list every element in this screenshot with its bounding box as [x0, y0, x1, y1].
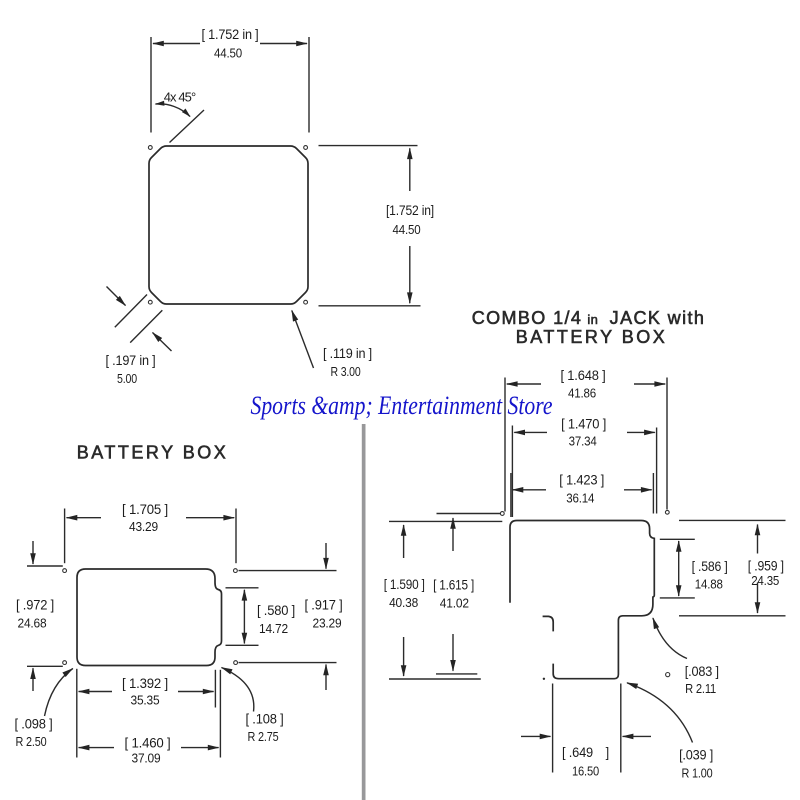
extension line top-right	[308, 37, 310, 133]
divider bar	[362, 424, 366, 800]
arrow up (.959)	[757, 525, 759, 554]
dim arrow up (1.752 right)	[409, 148, 411, 191]
svg-text:5.00: 5.00	[117, 371, 137, 386]
dim arrow right (1.648)	[634, 383, 665, 385]
reference point R2.11	[666, 673, 670, 677]
ext line 1.460 right	[219, 670, 221, 758]
ext 1.470 left	[511, 426, 513, 518]
dim arrow left (1.648)	[507, 383, 541, 385]
svg-text:[ 1.590 ]: [ 1.590 ]	[384, 577, 425, 592]
corner point box top-right	[234, 569, 238, 573]
ext .586 bottom	[660, 597, 695, 599]
corner point combo top-right	[665, 510, 669, 514]
chamfer ext line B	[130, 310, 162, 342]
svg-text:35.35: 35.35	[131, 693, 160, 708]
ext line .580 bottom	[226, 644, 259, 646]
svg-text:37.09: 37.09	[132, 751, 161, 766]
fig1 dimension labels	[106, 27, 435, 386]
ext .959 top	[679, 519, 786, 521]
dim arrow down (1.752 right)	[409, 246, 411, 303]
svg-text:4x 45°: 4x 45°	[164, 90, 196, 105]
svg-text:BATTERY BOX: BATTERY BOX	[77, 443, 229, 463]
stray dot	[543, 678, 545, 680]
extension line right-bottom	[319, 305, 421, 307]
corner point bottom-left	[148, 300, 152, 304]
svg-text:[ .917 ]: [ .917 ]	[305, 598, 343, 613]
svg-text:[ .580 ]: [ .580 ]	[257, 603, 295, 618]
left horiz ext lower	[389, 520, 502, 522]
svg-text:BATTERY BOX: BATTERY BOX	[516, 327, 668, 347]
arrow down (.959)	[757, 583, 759, 614]
dim arrow right (1.460)	[181, 747, 219, 749]
extension line right-top	[319, 145, 418, 147]
ext line left-top	[27, 565, 63, 567]
svg-text:14.88: 14.88	[695, 576, 723, 591]
ext line 1.392 right	[214, 670, 216, 708]
svg-text:43.29: 43.29	[129, 519, 158, 534]
ext line right-bottom	[239, 662, 337, 664]
bottom horiz ext upper	[436, 673, 477, 675]
chamfer arrow 2	[153, 333, 172, 352]
dim arrow left (1.705)	[67, 517, 102, 519]
battery box outline	[77, 569, 222, 666]
ext line .580 top	[226, 587, 259, 589]
arrow down (.972)	[32, 541, 34, 564]
extension line top-left	[150, 37, 152, 133]
svg-text:R 2.75: R 2.75	[248, 729, 279, 744]
corner point box bottom-right	[234, 661, 238, 665]
svg-text:[ .098 ]: [ .098 ]	[15, 717, 53, 732]
svg-text:[ 1.470 ]: [ 1.470 ]	[561, 417, 606, 432]
svg-text:[ .959 ]: [ .959 ]	[748, 559, 784, 574]
fig2 corner circles	[63, 569, 238, 665]
arrow down (1.590)	[403, 637, 405, 676]
svg-text:[.039 ]: [.039 ]	[679, 747, 713, 762]
corner point box top-left	[63, 569, 67, 573]
corner point top-right	[304, 146, 308, 150]
ext .649 left	[552, 684, 554, 773]
dim arrow left (1.752 top)	[153, 43, 200, 45]
svg-text:[ 1.705 ]: [ 1.705 ]	[122, 502, 168, 517]
ext 1.423 right	[652, 473, 654, 514]
svg-text:14.72: 14.72	[259, 621, 288, 636]
corner point box bottom-left	[63, 661, 67, 665]
svg-text:41.86: 41.86	[568, 385, 596, 400]
ext .959 bottom	[679, 615, 786, 617]
bottom horiz ext lower	[389, 678, 481, 680]
svg-text:[ .197 in ]: [ .197 in ]	[106, 353, 156, 368]
leader R2.75	[222, 668, 254, 712]
svg-text:23.29: 23.29	[313, 616, 342, 631]
combo corner stub	[543, 616, 554, 631]
ext 1.470 right	[656, 428, 658, 514]
leader R2.50	[45, 669, 73, 717]
svg-text:[ 1.615 ]: [ 1.615 ]	[433, 577, 474, 592]
svg-text:[ 1.648 ]: [ 1.648 ]	[561, 368, 606, 383]
ext line 1.705 right	[235, 509, 237, 564]
square outline with 4x45 chamfers	[149, 146, 308, 304]
chamfer ext line A	[115, 295, 147, 328]
corner point bottom-right	[304, 300, 308, 304]
arrow right-pointing (.649)	[521, 735, 551, 737]
dim double arrow (.586)	[678, 541, 680, 596]
svg-text:41.02: 41.02	[440, 595, 469, 610]
svg-text:40.38: 40.38	[389, 595, 418, 610]
arrow down (1.615)	[452, 634, 454, 671]
combo outline main	[510, 521, 654, 679]
svg-text:44.50: 44.50	[393, 222, 421, 237]
ext line 1.705 left	[64, 509, 66, 564]
ext 1.423 left	[510, 473, 512, 517]
ext line left-bottom	[27, 665, 63, 667]
leader R2.11	[653, 618, 687, 659]
dim arrow left (1.460)	[79, 747, 114, 749]
ext line 1.392/1.460 left	[76, 669, 78, 758]
svg-text:44.50: 44.50	[214, 46, 242, 61]
corner point combo top-left	[500, 512, 504, 516]
svg-text:[ .119 in ]: [ .119 in ]	[323, 346, 372, 361]
arrow up (1.590)	[403, 525, 405, 558]
ext line right-top	[239, 570, 337, 572]
dim double arrow (.580)	[243, 590, 245, 644]
dim arrow left (1.392)	[79, 691, 112, 693]
dim arrow left (1.470)	[514, 431, 547, 433]
dim arrow right (1.705)	[186, 517, 234, 519]
45 deg indicator line	[170, 110, 205, 143]
svg-text:[ .649 ]: [ .649 ]	[562, 745, 609, 760]
svg-text:R 2.50: R 2.50	[16, 734, 47, 749]
ext .649 right	[620, 684, 622, 773]
fig3 circles	[500, 510, 669, 676]
corner reference circles	[148, 146, 307, 305]
left horiz ext upper	[437, 513, 501, 515]
svg-text:[ 1.423 ]: [ 1.423 ]	[559, 473, 604, 488]
ext 1.648 left	[504, 378, 506, 512]
svg-text:[ .108 ]: [ .108 ]	[246, 712, 284, 727]
svg-text:R 2.11: R 2.11	[685, 681, 716, 696]
dim arrow right (1.423)	[624, 489, 652, 491]
dim arrow left (1.423)	[513, 489, 547, 491]
arrow up (.972)	[32, 668, 34, 691]
dim arrow right (1.752 top)	[260, 43, 307, 45]
dim arrow right (1.392)	[178, 691, 214, 693]
corner point top-left	[148, 146, 152, 150]
svg-text:[ 1.392 ]: [ 1.392 ]	[122, 676, 168, 691]
ext 1.648 right	[666, 378, 668, 510]
fig3 labels	[384, 368, 784, 780]
leader R1.00	[627, 683, 693, 743]
svg-text:36.14: 36.14	[566, 490, 594, 505]
svg-text:24.68: 24.68	[18, 616, 47, 631]
svg-text:COMBO 1/4 in JACK with: COMBO 1/4 in JACK with	[472, 308, 706, 328]
arrow up (1.615)	[452, 518, 454, 551]
leader R3.00	[292, 311, 314, 369]
arrow left-pointing (.649)	[623, 735, 651, 737]
angle arc	[156, 104, 191, 117]
arrow down (.917)	[325, 543, 327, 569]
svg-text:[1.752 in]: [1.752 in]	[386, 203, 434, 218]
svg-text:37.34: 37.34	[569, 433, 597, 448]
ext .586 top	[660, 538, 695, 540]
svg-text:[ 1.752 in ]: [ 1.752 in ]	[202, 27, 259, 42]
svg-text:R 3.00: R 3.00	[331, 364, 361, 379]
svg-text:Sports &amp; Entertainment Sto: Sports &amp; Entertainment Store	[251, 391, 553, 420]
fig2 labels	[15, 502, 343, 766]
svg-text:[.083 ]: [.083 ]	[685, 664, 719, 679]
svg-text:[ 1.460 ]: [ 1.460 ]	[125, 736, 171, 751]
chamfer arrow 1	[107, 287, 126, 306]
dim arrow right (1.470)	[627, 431, 655, 433]
svg-text:[ .972 ]: [ .972 ]	[16, 598, 54, 613]
svg-text:16.50: 16.50	[572, 764, 599, 779]
arrow up (.917)	[325, 665, 327, 691]
svg-text:24.35: 24.35	[751, 573, 779, 588]
svg-text:R 1.00: R 1.00	[682, 765, 713, 780]
svg-text:[ .586 ]: [ .586 ]	[692, 559, 728, 574]
